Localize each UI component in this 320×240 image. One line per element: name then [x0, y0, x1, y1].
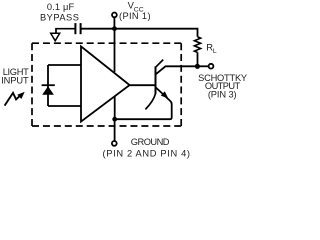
node: ground junction [112, 117, 117, 122]
ground terminal circle [112, 141, 117, 146]
Schottky output terminal circle [209, 64, 214, 69]
wire: Vcc terminal to node [113, 17, 115, 28]
Vcc terminal circle [112, 13, 117, 18]
wire: amp ground stub [114, 96, 116, 119]
svg-text:(PIN 1): (PIN 1) [119, 11, 151, 21]
svg-text:GROUND: GROUND [131, 137, 170, 147]
svg-text:INPUT: INPUT [1, 76, 29, 86]
wire: ground arrow to capacitor [55, 28, 74, 30]
dashed IC boundary box [32, 43, 181, 126]
label LIGHT INPUT [1, 67, 29, 85]
wire: Vcc node down to amplifier supply [114, 29, 116, 72]
wire: ground node to ground terminal [114, 119, 116, 141]
wire: photodiode top to amp input [48, 64, 81, 66]
wire: capacitor to Vcc node and across to RL [82, 29, 198, 37]
svg-text:(PIN 3): (PIN 3) [208, 89, 237, 99]
light input arrows [5, 92, 25, 106]
op-amp U1 [81, 46, 130, 121]
label SCHOTTKY OUTPUT (PIN 3) [198, 73, 247, 99]
wire: emitter down and across to ground node [115, 101, 172, 119]
resistor RL [194, 37, 200, 53]
node: output junction [195, 64, 200, 69]
svg-text:L: L [213, 48, 217, 55]
svg-text:BYPASS: BYPASS [40, 13, 80, 23]
label RL [206, 41, 217, 55]
photodiode D1 [42, 65, 55, 106]
wire: photodiode bottom to amp input [48, 105, 81, 107]
wire: RL to output node [197, 52, 199, 66]
label 0.1 uF BYPASS [40, 2, 80, 22]
transistor Q1 (Schottky) [145, 60, 197, 110]
ground arrow (bypass cap return) [51, 29, 60, 41]
wire: amp output to transistor base [130, 84, 156, 86]
svg-text:0.1 μF: 0.1 μF [47, 2, 75, 12]
label GROUND (PIN 2 AND PIN 4) [102, 137, 190, 158]
wire: node to output terminal [197, 65, 208, 67]
capacitor C1 0.1uF [75, 23, 80, 34]
node: Vcc junction [112, 26, 117, 31]
label Vcc (PIN 1) [119, 0, 151, 21]
svg-text:(PIN 2 AND PIN 4): (PIN 2 AND PIN 4) [102, 148, 190, 158]
